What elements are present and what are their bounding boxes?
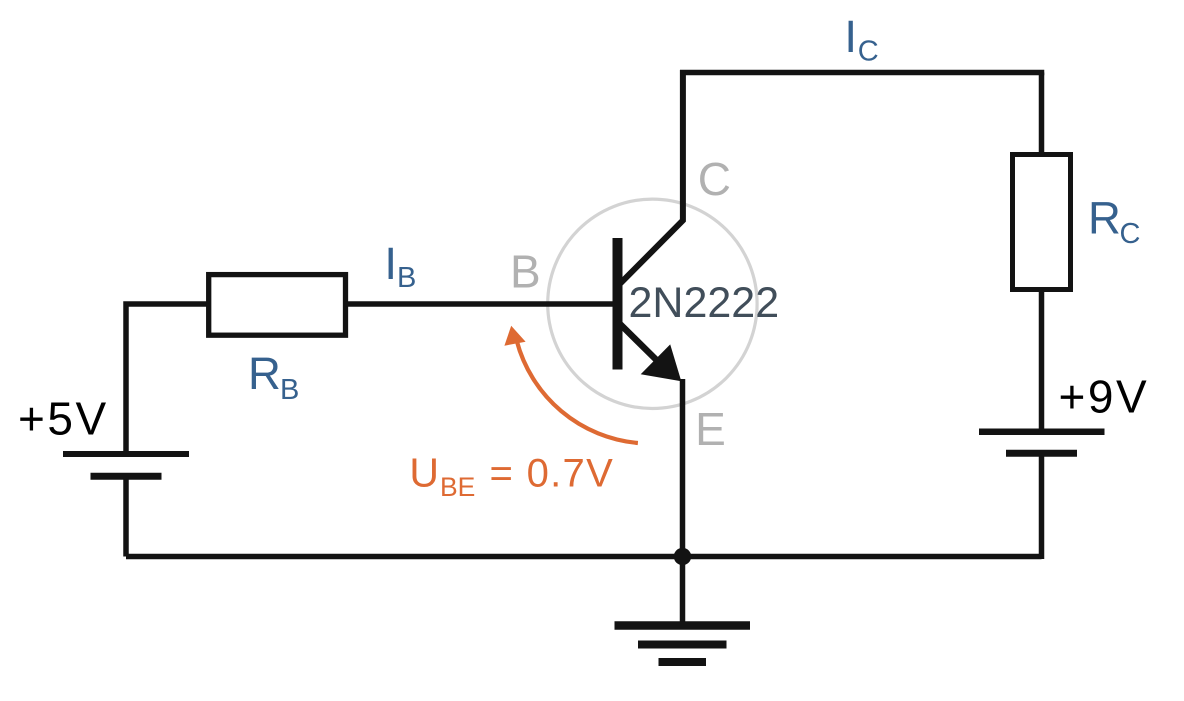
svg-text:+5V: +5V — [18, 393, 109, 445]
battery B2 +9V long plate — [979, 429, 1105, 436]
collector wire vertical and diagonal into transistor — [616, 70, 683, 288]
UBE arc arrow — [517, 341, 638, 443]
svg-text:I: I — [384, 238, 397, 289]
svg-text:E: E — [695, 403, 726, 455]
battery B2 +9V short plate — [1006, 450, 1077, 457]
svg-text:C: C — [698, 153, 731, 205]
emitter arrowhead — [641, 344, 682, 381]
ground symbol bar 3 — [659, 658, 707, 666]
svg-text:B: B — [397, 262, 416, 294]
emitter wire down to ground — [680, 379, 686, 626]
wire RB to base — [345, 301, 616, 307]
svg-text:= 0.7V: = 0.7V — [490, 452, 615, 496]
svg-text:U: U — [409, 450, 439, 496]
svg-text:I: I — [844, 11, 857, 62]
wire bottom rail to +9V battery — [1039, 453, 1045, 559]
svg-text:R: R — [1088, 193, 1121, 244]
bottom rail wire — [126, 554, 1042, 560]
transistor body circle Q1 — [548, 199, 757, 408]
resistor RB — [209, 275, 346, 336]
svg-text:C: C — [858, 36, 879, 68]
wire battery B1 to bottom rail — [123, 477, 129, 557]
wire RC to top rail — [1039, 73, 1045, 157]
svg-text:+9V: +9V — [1059, 371, 1150, 423]
svg-text:C: C — [1120, 218, 1141, 250]
battery B1 +5V long plate — [63, 451, 189, 457]
top rail wire IC — [680, 70, 1044, 76]
svg-text:R: R — [248, 348, 281, 399]
wire +5V battery to base resistor (left vertical and horizontal) — [126, 304, 211, 454]
svg-text:B: B — [280, 374, 299, 406]
svg-text:BE: BE — [440, 472, 475, 502]
emitter diagonal — [617, 321, 658, 362]
ground symbol bar 1 — [615, 621, 751, 630]
ground symbol bar 2 — [638, 641, 727, 649]
UBE arrowhead — [504, 326, 525, 346]
wire battery B2 to RC — [1039, 290, 1045, 432]
svg-text:2N2222: 2N2222 — [629, 279, 780, 327]
battery B1 +5V short plate — [91, 473, 162, 480]
resistor RC — [1013, 155, 1071, 290]
junction node dot — [674, 548, 691, 565]
transistor base bar — [613, 238, 623, 370]
svg-text:B: B — [510, 245, 541, 297]
